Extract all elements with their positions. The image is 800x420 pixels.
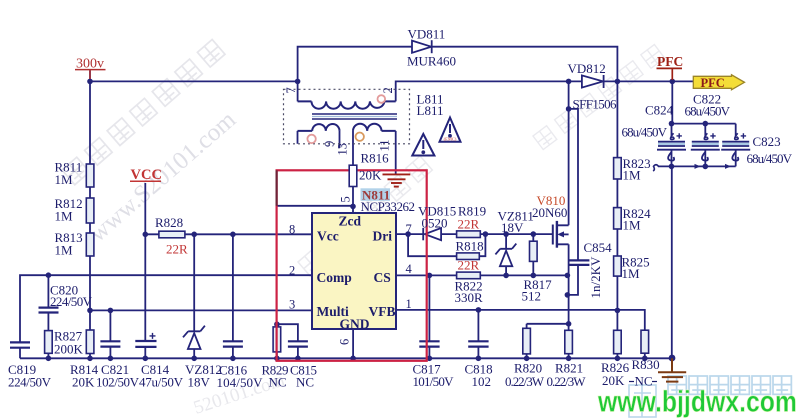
svg-text:1n/2KV: 1n/2KV	[588, 256, 603, 299]
junction Zcd node	[350, 204, 356, 210]
svg-text:NCP33262: NCP33262	[361, 199, 416, 214]
node 300v	[75, 57, 106, 80]
svg-text:Comp: Comp	[317, 270, 352, 285]
watermark bottom-right blue	[629, 376, 791, 417]
wire R817 leads	[532, 234, 534, 275]
resistor R822	[457, 272, 481, 279]
svg-text:VFB: VFB	[369, 304, 396, 319]
ground mid (red) near R816	[383, 174, 411, 186]
wire Zcd node horizontal	[276, 205, 353, 207]
svg-text:330R: 330R	[455, 290, 484, 305]
capacitor C819	[10, 342, 30, 347]
svg-text:1M: 1M	[622, 266, 641, 281]
svg-text:Zcd: Zcd	[339, 214, 362, 229]
svg-text:20K: 20K	[72, 375, 95, 390]
svg-text:22R: 22R	[458, 258, 480, 273]
svg-text:VD812: VD812	[568, 61, 606, 76]
svg-text:22R: 22R	[458, 217, 480, 232]
wire VD812 cathode to PFC node	[605, 80, 694, 82]
resistor R830	[641, 330, 649, 353]
wire transformer bottom-left winding leads	[298, 131, 340, 148]
wire transformer pin13 to R816 to Zcd	[352, 131, 354, 213]
squiggle left end of caps bus	[653, 165, 659, 171]
svg-text:2: 2	[289, 264, 295, 278]
resistor R813	[86, 233, 94, 256]
svg-text:224/50V: 224/50V	[50, 294, 93, 309]
svg-text:2: 2	[381, 87, 395, 93]
resistor R812	[86, 198, 94, 223]
svg-text:7: 7	[284, 87, 298, 93]
svg-text:1M: 1M	[623, 218, 642, 233]
svg-text:CS: CS	[374, 270, 391, 285]
svg-text:9: 9	[323, 141, 337, 147]
resistor R816	[349, 165, 357, 186]
svg-text:R818: R818	[456, 239, 484, 254]
svg-text:PFC: PFC	[657, 54, 683, 69]
watermark diagonal top-left	[62, 39, 225, 184]
junction VFB line	[476, 307, 482, 313]
svg-text:R830: R830	[632, 357, 660, 372]
node VCC	[130, 167, 162, 183]
resistor R817	[530, 241, 538, 261]
wire CS pin4 line	[396, 274, 567, 276]
junction output node	[615, 79, 621, 85]
capacitor C818	[468, 341, 488, 346]
red highlight box	[277, 170, 427, 360]
resistor R820	[523, 328, 531, 354]
wire output divider R823 R824 R825 R826 column	[616, 81, 618, 358]
junction transformer pin7	[295, 79, 301, 85]
svg-text:101/50V: 101/50V	[413, 374, 455, 389]
svg-text:20N60: 20N60	[532, 205, 567, 220]
svg-text:4: 4	[406, 262, 413, 276]
resistor R814	[86, 330, 94, 354]
resistor R827	[45, 331, 53, 354]
svg-text:L811: L811	[417, 103, 444, 118]
resistor R829	[273, 327, 281, 352]
wire GND pin6 lead	[352, 329, 354, 358]
svg-text:0.22/3W: 0.22/3W	[505, 374, 545, 389]
svg-text:SFF1506: SFF1506	[573, 97, 618, 112]
svg-text:1M: 1M	[55, 209, 74, 224]
svg-text:18V: 18V	[188, 375, 211, 390]
inductor L811 primary winding	[298, 101, 396, 108]
wire C818 branch	[477, 310, 479, 358]
wire C819 bottom lead	[19, 348, 21, 359]
svg-text:18V: 18V	[501, 220, 524, 235]
svg-text:Dri: Dri	[373, 229, 393, 244]
wire PFC caps top bus	[672, 81, 735, 123]
svg-text:MUR460: MUR460	[407, 54, 456, 69]
diode VD811	[412, 40, 432, 53]
svg-text:NC: NC	[269, 375, 287, 390]
PFC arrow banner	[693, 75, 744, 90]
svg-text:512: 512	[522, 289, 542, 304]
svg-text:www.bjjdwx.com: www.bjjdwx.com	[597, 386, 797, 419]
svg-text:47u/50V: 47u/50V	[139, 375, 184, 390]
wire VZ812 branch	[193, 234, 195, 358]
zener VZ812	[183, 326, 205, 349]
wire top rail to VD811 anode	[298, 47, 412, 82]
capacitor C820	[39, 308, 59, 313]
svg-text:1: 1	[406, 297, 412, 311]
wire ground bus	[20, 357, 672, 359]
wire cap C823 leads	[735, 124, 737, 167]
junction Vcc line	[143, 232, 149, 238]
svg-text:68u/450V: 68u/450V	[747, 151, 793, 166]
wire C854 bottom jog	[567, 265, 578, 295]
capacitor C822 electrolytic	[691, 133, 720, 160]
svg-text:C854: C854	[584, 240, 613, 255]
junction source node	[565, 292, 571, 298]
wire VFB pin1 line to R830	[396, 310, 645, 330]
svg-text:8: 8	[289, 223, 295, 237]
svg-text:3: 3	[289, 298, 295, 312]
svg-text:0.22/3W: 0.22/3W	[547, 374, 587, 389]
capacitor C814 polarized	[135, 333, 156, 347]
resistor R828	[159, 231, 185, 238]
resistor R824	[614, 208, 622, 229]
svg-text:1M: 1M	[623, 168, 642, 183]
diode VD815	[423, 228, 441, 240]
svg-text:R816: R816	[361, 151, 390, 166]
svg-text:68u/450V: 68u/450V	[685, 104, 731, 119]
warning triangle 2 EMC	[440, 118, 461, 142]
op-amp IC N811 NCP33262 box	[312, 213, 396, 329]
transformer L811 dotted box	[284, 89, 410, 144]
wire Comp pin2 line	[20, 275, 312, 342]
wire VCC vertical to C814	[144, 183, 146, 341]
node PFC red	[657, 54, 684, 80]
watermark diagonal center	[84, 106, 241, 248]
svg-text:6: 6	[338, 339, 352, 345]
junction R829 bar	[274, 321, 280, 327]
wire R829 C815 top bar	[277, 324, 298, 341]
wire transformer pin7 lead	[297, 81, 299, 101]
svg-text:13: 13	[336, 143, 350, 156]
svg-text:NC: NC	[296, 375, 314, 390]
capacitor C816	[223, 341, 243, 346]
capacitor C824 electrolytic	[657, 133, 686, 160]
junction CS line	[427, 273, 433, 279]
wire R811-R814 divider column	[89, 81, 91, 358]
resistor R825	[614, 256, 622, 276]
watermark bottom-left	[191, 370, 288, 419]
wire C816 branch	[232, 234, 234, 358]
wire Multi pin3 line	[90, 309, 312, 311]
transformer core	[312, 114, 397, 119]
svg-text:C824: C824	[645, 103, 674, 118]
wire cap C824 leads	[671, 124, 673, 167]
capacitor C817	[419, 341, 439, 346]
resistor R818	[457, 253, 480, 260]
watermark diagonal top-right	[533, 45, 665, 150]
capacitor C821	[100, 341, 120, 346]
wire transformer pin11 to ground	[395, 131, 397, 174]
svg-text:1M: 1M	[55, 243, 74, 258]
wire MOSFET drain vertical	[568, 81, 570, 225]
capacitor C854	[568, 260, 589, 265]
wire C854 top jog	[569, 109, 578, 260]
resistor R821	[565, 330, 573, 353]
zener VZ811	[495, 244, 516, 267]
svg-text:22R: 22R	[166, 242, 188, 257]
junction caps bus	[669, 121, 675, 127]
dark segment on red box left edge	[276, 170, 278, 206]
capacitor C815	[288, 341, 308, 346]
svg-text:200K: 200K	[54, 342, 84, 357]
resistor R823	[614, 158, 622, 179]
wire R820 R821 top bar	[527, 323, 569, 325]
wire R830 bottom lead	[644, 353, 646, 358]
svg-text:7: 7	[406, 222, 412, 236]
inductor aux winding right	[353, 124, 396, 131]
wire C821 branch	[109, 310, 111, 358]
svg-text:5: 5	[339, 196, 353, 202]
svg-text:R828: R828	[155, 215, 183, 230]
wire 300v rail	[90, 71, 298, 82]
svg-text:102/50V: 102/50V	[96, 375, 140, 390]
wire R818 parallel loop	[408, 234, 457, 256]
resistor R826	[614, 330, 622, 353]
svg-text:68u/450V: 68u/450V	[622, 125, 668, 140]
N811 highlight	[361, 188, 391, 201]
junction Dri line	[405, 231, 411, 237]
resistor R811	[86, 164, 94, 187]
junction drain node	[566, 79, 572, 85]
wire caps bottom bus to ground	[658, 165, 736, 167]
junction Comp line	[46, 272, 52, 278]
polarity dot aux right	[356, 133, 364, 141]
junction Multi line	[87, 308, 93, 314]
svg-text:GND: GND	[340, 317, 370, 332]
ground bottom-right (brown)	[658, 358, 686, 381]
wire MOSFET source vertical	[568, 244, 570, 323]
svg-text:C823: C823	[753, 134, 781, 149]
wire C814 bottom lead	[144, 347, 146, 358]
wire C820 R827 branch	[47, 275, 49, 358]
wire transformer pin2 to drain node and VD812 anode	[396, 81, 582, 101]
svg-text:224/50V: 224/50V	[8, 375, 52, 390]
wire cap C822 leads	[704, 124, 706, 167]
resistor R819	[457, 231, 481, 238]
svg-text:104/50V: 104/50V	[217, 375, 264, 390]
svg-text:(EMC): (EMC)	[444, 137, 457, 142]
inductor aux winding left	[298, 124, 340, 131]
junction 300v	[87, 79, 93, 85]
MOSFET V810	[553, 221, 569, 248]
svg-text:0520: 0520	[422, 216, 448, 231]
warning triangle 1	[412, 134, 434, 156]
svg-text:20K: 20K	[359, 168, 382, 183]
svg-text:Vcc: Vcc	[317, 229, 339, 244]
diode VD812	[582, 75, 604, 88]
wire Dri pin7 line	[396, 233, 553, 235]
wire C817 branch	[428, 275, 430, 358]
svg-text:VD811: VD811	[408, 27, 446, 42]
wire VD811 cathode to output node	[432, 47, 618, 82]
wire Vcc pin8 line	[145, 233, 312, 235]
capacitor C823 electrolytic	[721, 133, 750, 160]
polarity dot pin2	[378, 95, 386, 103]
polarity dot aux left	[307, 135, 315, 143]
svg-text:PFC: PFC	[701, 76, 725, 90]
wire VZ811 leads	[505, 234, 507, 275]
svg-text:1M: 1M	[55, 172, 74, 187]
svg-text:102: 102	[472, 374, 492, 389]
junction ground bus dots	[46, 356, 52, 362]
